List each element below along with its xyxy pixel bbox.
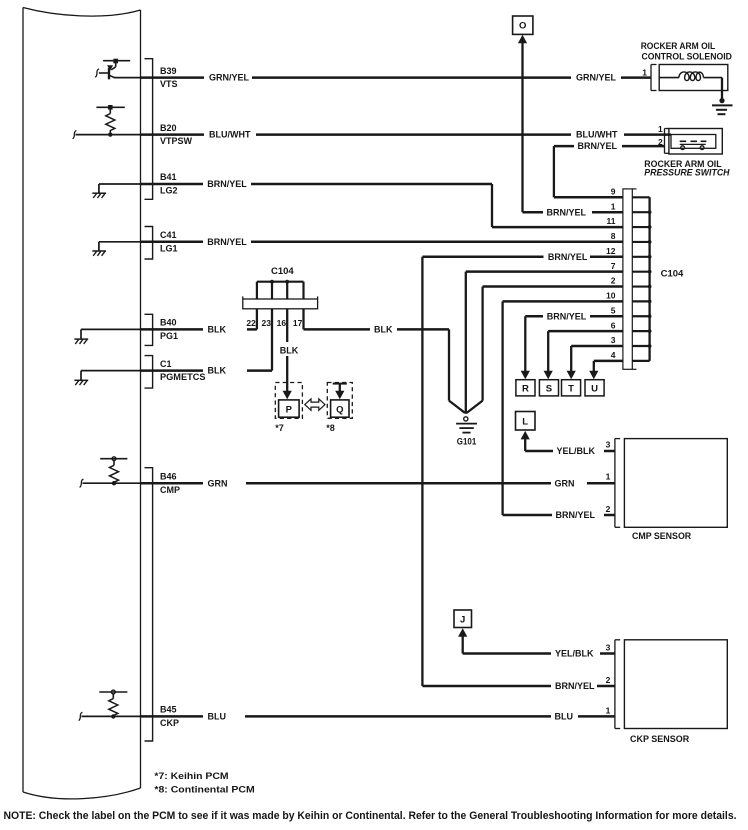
svg-text:17: 17 [293,318,303,328]
svg-text:B20: B20 [160,123,177,133]
svg-text:YEL/BLK: YEL/BLK [557,446,596,456]
svg-text:BRN/YEL: BRN/YEL [207,237,247,247]
svg-text:2: 2 [611,276,616,286]
svg-text:GRN: GRN [208,478,228,488]
svg-text:6: 6 [611,320,616,330]
svg-text:CKP SENSOR: CKP SENSOR [630,734,690,744]
svg-text:1: 1 [611,201,616,211]
svg-text:2: 2 [658,137,663,147]
svg-text:11: 11 [607,216,616,226]
svg-text:9: 9 [611,187,616,197]
svg-text:C104: C104 [271,266,294,277]
svg-text:BRN/YEL: BRN/YEL [555,681,595,691]
svg-text:GRN: GRN [555,478,575,488]
svg-text:1: 1 [642,67,647,77]
svg-text:3: 3 [606,440,611,450]
svg-text:BRN/YEL: BRN/YEL [578,141,618,151]
svg-text:12: 12 [606,246,616,256]
svg-text:3: 3 [606,642,611,652]
svg-text:B40: B40 [160,318,177,328]
svg-text:B46: B46 [160,471,177,481]
svg-text:B45: B45 [160,705,177,715]
svg-text:VTPSW: VTPSW [160,136,193,146]
svg-text:CMP: CMP [160,485,180,495]
svg-text:YEL/BLK: YEL/BLK [555,649,594,659]
svg-text:2: 2 [606,675,611,685]
svg-text:O: O [519,21,526,32]
svg-text:10: 10 [606,291,616,301]
svg-text:NOTE: Check the label on the P: NOTE: Check the label on the PCM to see … [4,810,737,822]
svg-text:3: 3 [611,335,616,345]
svg-text:BRN/YEL: BRN/YEL [547,311,587,321]
svg-text:P: P [286,404,293,415]
svg-text:*8: Continental PCM: *8: Continental PCM [154,785,254,796]
svg-text:1: 1 [606,471,611,481]
svg-text:BLU: BLU [208,712,227,722]
svg-text:CONTROL SOLENOID: CONTROL SOLENOID [642,52,733,62]
svg-text:BLK: BLK [374,325,393,335]
svg-text:1: 1 [658,124,663,134]
svg-text:BRN/YEL: BRN/YEL [207,179,247,189]
svg-text:B41: B41 [160,172,177,182]
svg-text:PG1: PG1 [160,331,178,341]
svg-text:L: L [522,417,528,428]
svg-text:Q: Q [336,404,343,415]
svg-text:PGMETCS: PGMETCS [160,372,206,382]
svg-text:8: 8 [611,231,616,241]
svg-text:BRN/YEL: BRN/YEL [548,252,588,262]
svg-text:16: 16 [277,318,287,328]
svg-text:B39: B39 [160,66,177,76]
svg-text:BLK: BLK [280,345,299,355]
svg-text:GRN/YEL: GRN/YEL [209,73,250,83]
svg-text:23: 23 [262,318,272,328]
svg-text:J: J [460,615,465,626]
svg-text:*7: *7 [275,423,284,433]
svg-text:CKP: CKP [160,718,179,728]
svg-text:BLU/WHT: BLU/WHT [576,130,618,140]
svg-text:BRN/YEL: BRN/YEL [556,510,596,520]
svg-text:4: 4 [611,350,616,360]
svg-text:LG2: LG2 [160,186,178,196]
svg-text:BLU/WHT: BLU/WHT [209,130,251,140]
svg-text:CMP SENSOR: CMP SENSOR [632,531,692,541]
svg-text:GRN/YEL: GRN/YEL [576,73,617,83]
svg-text:C41: C41 [160,230,177,240]
svg-text:BLU: BLU [555,712,574,722]
svg-text:S: S [546,384,552,395]
svg-text:PRESSURE SWITCH: PRESSURE SWITCH [644,168,730,178]
svg-text:BLK: BLK [208,325,227,335]
svg-text:5: 5 [611,305,616,315]
svg-text:VTS: VTS [160,79,178,89]
svg-text:C1: C1 [160,359,172,369]
svg-text:C104: C104 [661,269,684,280]
svg-text:T: T [568,384,574,395]
svg-text:1: 1 [606,705,611,715]
svg-text:LG1: LG1 [160,243,178,253]
svg-text:ROCKER ARM OIL: ROCKER ARM OIL [641,41,716,51]
svg-text:*8: *8 [326,423,335,433]
svg-text:BRN/YEL: BRN/YEL [547,207,587,217]
svg-text:R: R [522,384,529,395]
svg-text:U: U [591,384,598,395]
svg-text:BLK: BLK [208,366,227,376]
svg-text:*7: Keihin PCM: *7: Keihin PCM [154,771,228,782]
svg-text:22: 22 [246,318,256,328]
svg-text:7: 7 [611,261,616,271]
svg-text:2: 2 [606,504,611,514]
svg-text:G101: G101 [457,437,477,448]
